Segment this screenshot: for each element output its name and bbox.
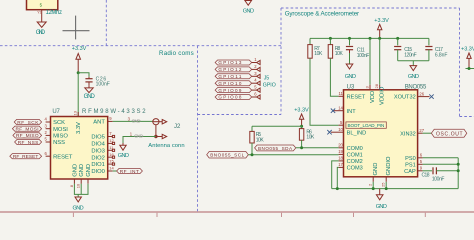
svg-text:10K: 10K	[314, 51, 323, 57]
svg-text:16: 16	[109, 152, 114, 157]
junction J2 shield	[154, 135, 157, 138]
U3 pin 18 COM2	[338, 156, 363, 165]
svg-text:COM1: COM1	[347, 153, 363, 159]
svg-text:17: 17	[338, 162, 343, 167]
global label GPIO11	[215, 71, 260, 79]
ground symbol top middle	[243, 1, 254, 15]
wire COM2 to ground rail	[332, 161, 339, 189]
U3 pin 19 COM1	[338, 149, 363, 158]
U3 pin 17 COM3	[338, 162, 363, 171]
wire +3.3V rail	[310, 37, 429, 39]
svg-text:GND: GND	[79, 164, 85, 177]
svg-text:13: 13	[73, 110, 78, 115]
U3 pin 5 BOOT_LOAD_PIN	[339, 120, 387, 128]
junction	[77, 71, 80, 74]
U3 pin 6 PS0	[405, 153, 458, 162]
connector J2 coaxial	[148, 119, 184, 150]
svg-text:+3.3V: +3.3V	[72, 46, 87, 52]
svg-text:COM2: COM2	[347, 159, 363, 165]
power +3.3V far right	[461, 47, 474, 69]
svg-text:18: 18	[338, 156, 343, 161]
svg-text:12: 12	[109, 138, 114, 143]
crystal 12Mhz	[27, 0, 63, 22]
U7 pin 3 MOSI	[45, 123, 69, 133]
svg-text:RF_INT: RF_INT	[120, 169, 139, 175]
resistor R6	[299, 126, 315, 148]
svg-text:GNDIO: GNDIO	[386, 156, 392, 175]
U7 pin 13 3.3V top	[73, 110, 79, 116]
svg-text:INT: INT	[347, 109, 357, 115]
ground for C26	[84, 85, 96, 100]
svg-text:RFM98W-433S2: RFM98W-433S2	[82, 109, 146, 115]
svg-text:RF_SCK: RF_SCK	[17, 120, 39, 126]
ground for U3	[376, 189, 387, 211]
svg-text:COM3: COM3	[347, 166, 363, 172]
svg-text:PS0: PS0	[405, 156, 416, 162]
svg-text:C18: C18	[422, 173, 430, 179]
svg-text:GND: GND	[86, 164, 92, 177]
section box Radio coms	[0, 0, 281, 211]
global label GPIO13	[215, 57, 260, 65]
wire pull-up rail	[252, 125, 302, 127]
svg-text:J2: J2	[174, 124, 181, 130]
svg-text:19: 19	[338, 149, 343, 154]
svg-text:Antenna conn: Antenna conn	[148, 143, 184, 149]
power +3.3V for pull-ups	[294, 108, 309, 127]
global label RF_SCK	[14, 119, 41, 125]
svg-text:GND: GND	[376, 204, 387, 210]
U7 pin 4 SCK	[45, 117, 66, 127]
svg-text:GND: GND	[118, 153, 129, 159]
svg-text:RF_MISO: RF_MISO	[16, 133, 39, 139]
svg-text:26: 26	[419, 91, 424, 96]
svg-text:J5: J5	[264, 75, 270, 81]
U3 pin 25 GNDIO bottom	[381, 156, 392, 189]
svg-text:DIO5: DIO5	[91, 135, 105, 141]
svg-text:28: 28	[374, 83, 379, 88]
ground for C11	[345, 53, 356, 80]
wire far right	[466, 68, 474, 70]
U3 pin 11 RESET	[339, 91, 366, 100]
U7 pin 9 ANT	[93, 116, 112, 126]
wire J2 shield to ground	[123, 137, 156, 144]
wire ANT to J2	[113, 120, 153, 122]
svg-text:SCK: SCK	[53, 120, 65, 126]
svg-text:U3: U3	[347, 85, 355, 91]
svg-text:+3.3V: +3.3V	[374, 18, 389, 24]
ground for C15 C17	[408, 61, 419, 80]
U3 pin 3 VDD top	[365, 38, 376, 103]
svg-text:RESET: RESET	[53, 154, 73, 160]
power +3.3V above U7	[72, 46, 87, 73]
svg-text:GPIO: GPIO	[263, 83, 276, 89]
power +3.3V gyro rail	[374, 18, 389, 38]
U7 pin 15 DIO1	[91, 159, 114, 169]
svg-text:14: 14	[109, 166, 114, 171]
global label RF_INT	[117, 168, 143, 174]
global label GPIO12	[215, 64, 260, 72]
section box Gyroscope & Accelerometer	[281, 8, 474, 117]
svg-text:GND: GND	[345, 74, 356, 80]
ground for J2 shield	[118, 143, 129, 159]
net hint GND on shield wire	[134, 134, 143, 139]
svg-text:Radio coms: Radio coms	[159, 50, 194, 57]
svg-text:11: 11	[339, 91, 344, 96]
wire	[78, 73, 89, 77]
capacitor C15	[394, 38, 417, 60]
global label RF_MISO	[13, 133, 42, 139]
svg-text:GND: GND	[73, 205, 84, 211]
U7 pin 2 MISO	[45, 130, 69, 140]
svg-text:DIO2: DIO2	[91, 155, 105, 161]
svg-text:DIO0: DIO0	[91, 169, 105, 175]
svg-text:PS1: PS1	[405, 162, 416, 168]
wire	[77, 73, 79, 117]
svg-text:GND: GND	[373, 163, 379, 176]
U3 pin 28 VDDIO top	[374, 38, 385, 105]
U7 GND pins bottom	[69, 164, 92, 188]
sheet frame line	[0, 212, 474, 217]
svg-text:RESET: RESET	[347, 94, 366, 100]
svg-text:BNO055: BNO055	[405, 85, 427, 91]
capacitor C26	[85, 76, 109, 87]
section box GPIO	[198, 8, 282, 115]
svg-text:ANT: ANT	[93, 120, 105, 126]
resistor R8	[328, 38, 343, 58]
svg-text:CAP: CAP	[404, 169, 416, 175]
global label BNO055_SDA	[255, 145, 296, 151]
U7 pin 5 NSS	[45, 137, 66, 147]
svg-text:Gyroscope & Accelerometer: Gyroscope & Accelerometer	[285, 10, 359, 17]
U7 pin 12 DIO4	[91, 138, 114, 148]
svg-text:10: 10	[76, 183, 81, 188]
U7 pin 7 DIO5	[91, 131, 114, 141]
svg-text:10K: 10K	[256, 137, 265, 143]
svg-text:100nF: 100nF	[96, 82, 110, 88]
svg-text:GND: GND	[72, 164, 78, 177]
junction dots on rail	[329, 37, 332, 40]
svg-text:VDDIO: VDDIO	[380, 86, 386, 105]
svg-text:MISO: MISO	[53, 134, 68, 140]
wire joining U7 GND pins	[74, 184, 88, 197]
U3 pin 20 COM0	[338, 143, 363, 152]
svg-text:BL_IND: BL_IND	[347, 130, 367, 136]
connector J5 reference	[263, 75, 276, 88]
ground for U7	[73, 197, 84, 211]
junction	[300, 125, 303, 128]
resistor R5	[250, 126, 265, 154]
wire C15 C17 bottoms	[398, 60, 429, 62]
svg-text:Y1: Y1	[37, 11, 41, 15]
U3 pin 27 XIN32	[400, 128, 431, 137]
svg-text:COM0: COM0	[347, 146, 363, 152]
junction	[468, 67, 471, 70]
global label GPIO09	[215, 85, 260, 93]
svg-text:25: 25	[381, 182, 386, 187]
global label OSC.OUT	[431, 129, 466, 137]
U3 pin 10 BL_IND no-connect	[327, 127, 366, 137]
svg-text:RF_NSS: RF_NSS	[18, 140, 39, 146]
svg-text:XIN32: XIN32	[400, 131, 416, 137]
svg-text:3.3V: 3.3V	[76, 122, 82, 134]
svg-text:VDD: VDD	[370, 91, 376, 103]
svg-text:27: 27	[419, 128, 424, 133]
global label GPIO08	[215, 92, 260, 100]
U7 pin 6 RESET	[45, 151, 73, 161]
svg-text:RF_MOSI: RF_MOSI	[16, 127, 39, 133]
svg-text:BOOT_LOAD_PIN: BOOT_LOAD_PIN	[348, 123, 385, 128]
net hint GND on ANT wire	[132, 118, 141, 123]
svg-text:GND: GND	[408, 74, 419, 80]
wire R8 to RESET	[330, 58, 338, 96]
capacitor C18	[422, 167, 459, 182]
svg-text:DIO3: DIO3	[91, 148, 105, 154]
svg-text:14: 14	[338, 105, 343, 110]
svg-text:GND: GND	[243, 9, 254, 15]
U3 pin 2 GND bottom	[368, 163, 379, 189]
svg-text:100nF: 100nF	[357, 53, 370, 59]
svg-text:GND: GND	[84, 94, 96, 100]
svg-text:BNO055_SDA: BNO055_SDA	[258, 146, 293, 151]
U7 pin 16 DIO2	[91, 152, 114, 162]
U7 pin 14 DIO0	[91, 166, 116, 176]
cursor crosshair	[63, 16, 90, 40]
U3 pin 14 INT no-connect	[331, 105, 356, 114]
global label RF_MOSI	[12, 126, 41, 132]
global label RF_NSS	[15, 139, 42, 145]
resistor R7	[308, 38, 323, 58]
ground for crystal	[36, 22, 46, 36]
svg-text:120nF: 120nF	[404, 52, 417, 58]
wire R7 to BOOT_LOAD_PIN	[310, 58, 339, 125]
svg-text:U7: U7	[52, 109, 60, 115]
U3 pin 5 PS1	[405, 159, 458, 168]
svg-text:DIO4: DIO4	[91, 142, 105, 148]
svg-text:6.8nF: 6.8nF	[435, 52, 448, 58]
capacitor C17	[425, 38, 447, 60]
svg-text:100nF: 100nF	[432, 177, 445, 183]
IC U3 BNO055 body	[344, 85, 427, 177]
global label BNO055_SCL	[207, 152, 249, 159]
svg-text:20: 20	[338, 143, 343, 148]
svg-text:GND: GND	[36, 30, 46, 36]
svg-text:MOSI: MOSI	[53, 127, 68, 133]
U3 pin 9 CAP	[404, 166, 432, 175]
U3 pin 26 XOUT32 no-connect	[394, 91, 434, 100]
svg-text:NSS: NSS	[53, 140, 65, 146]
wire SCL	[248, 154, 338, 156]
svg-text:15: 15	[109, 159, 114, 164]
svg-text:XOUT32: XOUT32	[394, 95, 416, 101]
U7 pin 11 DIO3	[91, 145, 114, 155]
wire ground rail bottom	[332, 188, 459, 190]
wire PS0 PS1 CAP to ground rail	[457, 158, 459, 189]
svg-text:+3.3V: +3.3V	[461, 47, 474, 53]
global label GPIO10	[215, 78, 260, 86]
wire COM3 to ground rail	[337, 167, 338, 188]
svg-text:10: 10	[338, 127, 343, 132]
global label RF_RESET	[10, 154, 42, 160]
svg-text:10K: 10K	[306, 135, 315, 141]
svg-text:10K: 10K	[335, 51, 344, 57]
capacitor C11	[346, 38, 369, 59]
wire SDA	[296, 147, 339, 149]
svg-text:BNO055_SCL: BNO055_SCL	[210, 153, 244, 158]
svg-text:12Mhz: 12Mhz	[46, 10, 63, 16]
svg-text:DIO1: DIO1	[91, 162, 105, 168]
IC U7 RFM98W-433S2 body	[51, 109, 147, 179]
svg-text:RF_RESET: RF_RESET	[13, 154, 39, 160]
